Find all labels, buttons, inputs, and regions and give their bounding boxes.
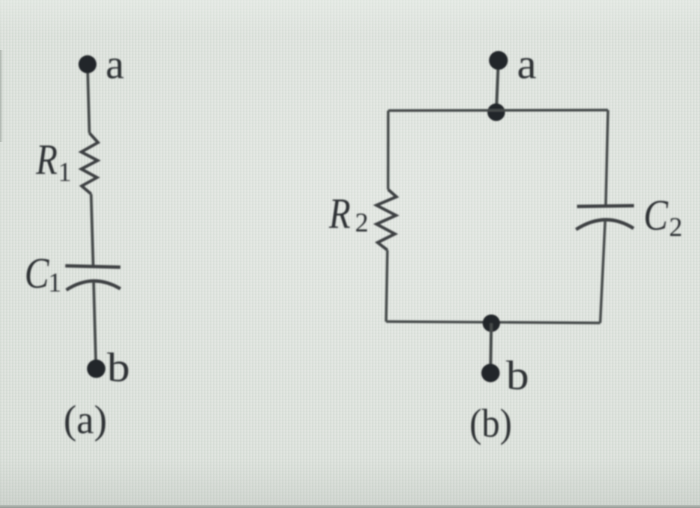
node b terminal dot (b) — [481, 364, 499, 382]
wire bottom edge of loop — [386, 322, 600, 323]
bottom junction dot — [483, 315, 500, 332]
label a (circuit a) — [106, 41, 125, 87]
wire R1 to C1 — [91, 194, 93, 266]
capacitor C2 top plate — [577, 204, 634, 208]
caption (a) — [64, 397, 108, 442]
svg-text:2: 2 — [355, 208, 369, 238]
wire top edge of loop — [388, 109, 608, 112]
left edge dark smudge — [0, 50, 3, 142]
svg-text:b: b — [107, 344, 130, 390]
caption (b) — [470, 401, 513, 446]
node a terminal dot (a) — [79, 55, 97, 73]
capacitor C1 top plate — [65, 266, 120, 267]
bottom screen edge line — [0, 505, 700, 508]
svg-text:1: 1 — [48, 268, 62, 298]
svg-text:1: 1 — [58, 157, 72, 187]
svg-text:R: R — [328, 191, 350, 238]
svg-text:a: a — [106, 41, 125, 87]
svg-text:(a): (a) — [64, 397, 108, 442]
node b terminal dot (a) — [87, 360, 105, 378]
wire node a to resistor R1 — [88, 64, 90, 133]
wire bottom junction to node b — [489, 323, 493, 373]
label C2 — [644, 193, 683, 243]
label b (circuit b) — [506, 352, 529, 398]
label R1 — [35, 137, 71, 187]
label C1 — [25, 251, 62, 298]
label b (circuit a) — [107, 344, 130, 390]
svg-text:b: b — [506, 352, 529, 398]
resistor R1 — [81, 133, 98, 194]
svg-text:C: C — [644, 193, 670, 240]
svg-text:C: C — [25, 251, 51, 298]
svg-text:a: a — [517, 42, 537, 88]
wire C1 to node b — [94, 282, 96, 369]
svg-text:2: 2 — [669, 212, 683, 242]
label R2 — [328, 191, 368, 238]
resistor R2 — [377, 190, 397, 251]
svg-text:R: R — [35, 137, 57, 184]
node a terminal dot (b) — [489, 51, 508, 70]
wire right edge lower — [600, 220, 605, 323]
wire left edge lower — [386, 250, 387, 322]
wire right edge upper — [606, 110, 608, 206]
label a (circuit b) — [517, 42, 537, 88]
capacitor C2 curved bottom plate — [576, 220, 634, 230]
wire left edge upper — [387, 111, 390, 190]
capacitor C1 curved bottom plate — [66, 281, 120, 290]
top junction dot — [487, 103, 505, 121]
wire node a to top junction — [496, 61, 498, 113]
svg-text:(b): (b) — [470, 401, 513, 446]
